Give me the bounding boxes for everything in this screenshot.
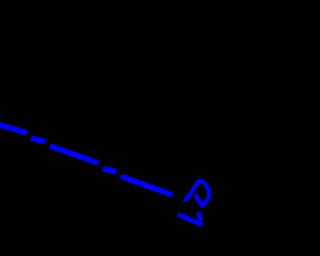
wire dash 1 (0, 124, 27, 133)
wire dash 4 (102, 169, 116, 172)
node label digit 1 (178, 212, 202, 225)
node label digit 2 (184, 181, 208, 206)
wire (0, 124, 172, 195)
wire dash 3 (50, 146, 98, 163)
wire dash 5 (121, 176, 172, 195)
wire dash 2 (31, 138, 46, 141)
